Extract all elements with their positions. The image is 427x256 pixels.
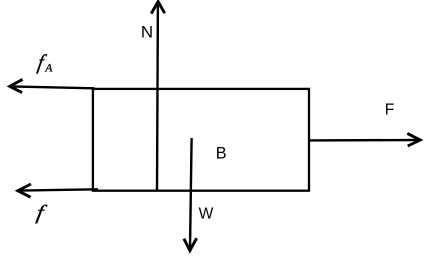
svg-text:A: A	[44, 61, 53, 74]
applied force F arrow	[309, 133, 420, 146]
weight force W arrow	[184, 138, 197, 251]
friction force f arrow (bottom)	[18, 184, 98, 197]
svg-text:F: F	[385, 101, 395, 118]
label N	[141, 23, 153, 42]
label f	[35, 201, 49, 224]
block B rectangle	[93, 89, 309, 191]
svg-text:W: W	[199, 206, 214, 223]
friction force fA arrow (top)	[10, 79, 95, 92]
svg-text:f: f	[35, 201, 49, 224]
svg-text:N: N	[141, 23, 153, 42]
label W	[199, 206, 214, 223]
label fA	[36, 52, 53, 75]
normal force N arrow	[151, 2, 165, 191]
svg-text:B: B	[216, 144, 227, 162]
label B	[216, 144, 227, 162]
label F	[385, 101, 395, 118]
